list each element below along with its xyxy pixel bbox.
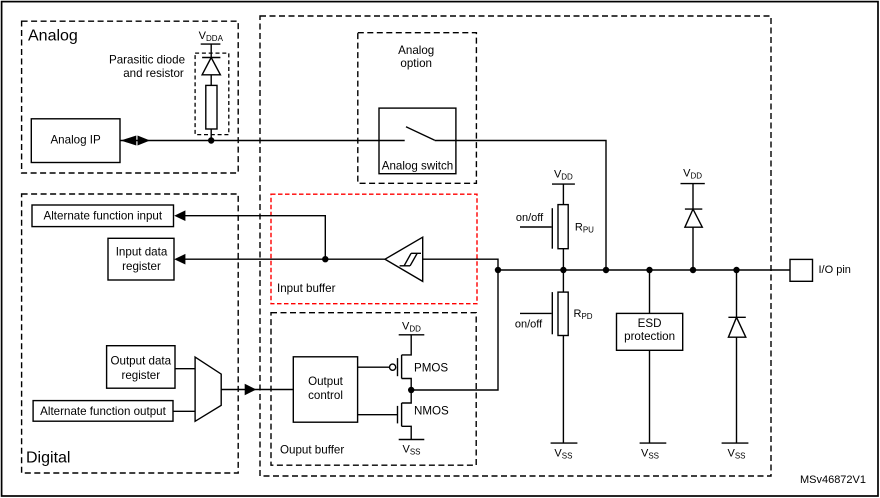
power VDD protection diode <box>681 168 705 184</box>
block Output control <box>293 357 357 422</box>
svg-text:on/off: on/off <box>515 319 543 331</box>
svg-text:register: register <box>122 260 161 273</box>
output buffer dashed box <box>271 313 476 466</box>
block Input data register <box>108 238 174 280</box>
svg-text:Analog IP: Analog IP <box>50 134 101 147</box>
wire VSS diode to VSS <box>736 337 738 443</box>
svg-text:Digital: Digital <box>26 450 70 467</box>
wire resistor to analog node <box>210 129 212 141</box>
svg-text:Analog: Analog <box>28 28 78 45</box>
pull-up on/off gate <box>516 208 552 249</box>
mux <box>195 357 221 421</box>
analog switch <box>379 108 456 174</box>
resistor RPU <box>558 205 594 249</box>
wire bus to RPD <box>562 270 564 292</box>
resistor RPD <box>558 292 593 335</box>
ground VSS ESD <box>640 443 667 460</box>
ground VSS below NMOS <box>399 440 425 457</box>
wire analog switch to bus <box>456 141 606 271</box>
block Analog IP <box>31 119 120 163</box>
input buffer red dashed box <box>271 194 477 304</box>
schmitt trigger input buffer <box>385 237 423 281</box>
power VDD pull-up <box>552 169 575 185</box>
junction bus ESD branch <box>646 267 652 273</box>
arrowhead into input data register <box>174 254 185 265</box>
svg-text:Analog switch: Analog switch <box>382 160 454 173</box>
svg-text:Analog: Analog <box>398 44 434 57</box>
wire output data register to mux <box>175 368 195 370</box>
wire schmitt output to input data register <box>180 258 385 260</box>
wire RPD to VSS <box>562 336 564 444</box>
svg-text:protection: protection <box>624 330 675 343</box>
wire bus to VSS diode <box>736 270 738 317</box>
wire diode to bus <box>692 227 694 270</box>
block Alternate function input <box>32 205 174 227</box>
ground VSS diode <box>722 443 749 460</box>
diode to VDD <box>685 209 702 227</box>
junction PMOS NMOS drains <box>408 387 414 393</box>
wire analog line left <box>120 140 405 142</box>
svg-text:option: option <box>400 57 432 70</box>
wire alternate function output to mux <box>173 410 195 412</box>
parasitic resistor <box>206 85 217 129</box>
svg-text:register: register <box>121 369 160 382</box>
svg-text:ESD: ESD <box>638 317 662 330</box>
junction bus VSS diode branch <box>733 267 739 273</box>
svg-text:on/off: on/off <box>516 212 544 224</box>
label parasitic diode and resistor <box>109 54 185 81</box>
parasitic elements dashed box <box>195 53 229 135</box>
svg-text:Output data: Output data <box>111 355 172 368</box>
svg-text:Alternate function input: Alternate function input <box>44 210 163 223</box>
block Output data register <box>107 346 175 389</box>
svg-text:PMOS: PMOS <box>414 362 448 375</box>
arrowhead mux output <box>245 384 257 396</box>
svg-text:Alternate function output: Alternate function output <box>40 405 166 418</box>
svg-text:and resistor: and resistor <box>123 67 184 80</box>
wire schmitt input from bus <box>423 259 498 270</box>
junction parasitic node <box>208 137 214 143</box>
arrowhead into alternate function input <box>174 210 185 221</box>
svg-text:control: control <box>308 389 343 402</box>
junction bus analog branch <box>603 267 609 273</box>
block Alternate function output <box>33 401 173 422</box>
wire VDDA to diode <box>210 44 212 57</box>
ground VSS pull-down <box>551 443 578 460</box>
svg-text:NMOS: NMOS <box>414 404 449 417</box>
svg-text:I/O pin: I/O pin <box>819 264 851 276</box>
svg-text:Ouput buffer: Ouput buffer <box>280 444 344 457</box>
svg-text:Output: Output <box>308 375 344 388</box>
wire diode to resistor <box>210 75 212 86</box>
svg-text:Parasitic diode: Parasitic diode <box>109 54 185 67</box>
wire bus to ESD <box>649 270 651 313</box>
bidirectional arrow analog <box>121 136 150 146</box>
junction bus pullup branch <box>560 267 566 273</box>
wire ESD to VSS <box>649 350 651 443</box>
wire VDD to diode <box>692 184 694 210</box>
transistor PMOS <box>358 335 449 390</box>
wire mux output <box>221 389 293 391</box>
diode to VSS <box>728 317 745 337</box>
transistor NMOS <box>358 390 449 440</box>
analog option dashed box <box>358 33 477 184</box>
GPIO peripheral dashed box <box>260 16 771 476</box>
pull-down on/off gate <box>515 292 552 334</box>
block ESD protection <box>617 313 683 350</box>
power VDDA <box>199 30 224 44</box>
svg-text:Input buffer: Input buffer <box>277 282 336 295</box>
wire output stage to bus <box>411 270 498 390</box>
junction bus schmitt branch <box>495 267 501 273</box>
wire VDD to RPU <box>562 184 564 205</box>
parasitic diode <box>202 58 220 75</box>
wire alternate function input <box>180 216 325 260</box>
I/O pin <box>790 259 851 281</box>
main bus wire to IO pin <box>498 269 790 271</box>
analog domain dashed box <box>22 21 239 173</box>
svg-text:Input data: Input data <box>116 245 168 258</box>
digital domain dashed box <box>22 194 239 473</box>
junction bus VDD diode branch <box>690 267 696 273</box>
svg-text:MSv46872V1: MSv46872V1 <box>800 474 866 486</box>
power VDD above PMOS <box>399 321 425 335</box>
junction AF input node <box>322 256 328 262</box>
wire RPU to bus <box>562 249 564 270</box>
